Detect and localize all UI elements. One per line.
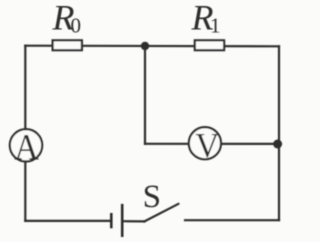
svg-text:V: V [195,127,219,165]
resistor R0 [53,40,82,50]
wire: right vertical [278,46,280,220]
svg-text:S: S [143,179,161,215]
node B junction dot [273,140,282,149]
wire: bottom-left segment to battery [25,220,110,222]
wire: voltmeter branch vertical from node A [144,46,146,144]
svg-text:1: 1 [210,14,221,38]
svg-text:A: A [14,126,39,168]
resistor R1 [195,40,224,50]
battery negative plate [110,213,113,228]
wire: battery to switch post [123,220,145,222]
battery positive plate [121,204,124,237]
node A junction dot [141,42,149,50]
wire: top from left corner to right corner [25,45,279,48]
switch S blade [144,204,179,222]
wire: voltmeter branch horizontal [145,143,278,145]
wire: left vertical [24,46,26,221]
svg-text:0: 0 [71,14,82,38]
ammeter A [10,129,42,161]
wire: switch right contact to bottom-right corner [185,219,279,221]
voltmeter V [189,127,221,159]
